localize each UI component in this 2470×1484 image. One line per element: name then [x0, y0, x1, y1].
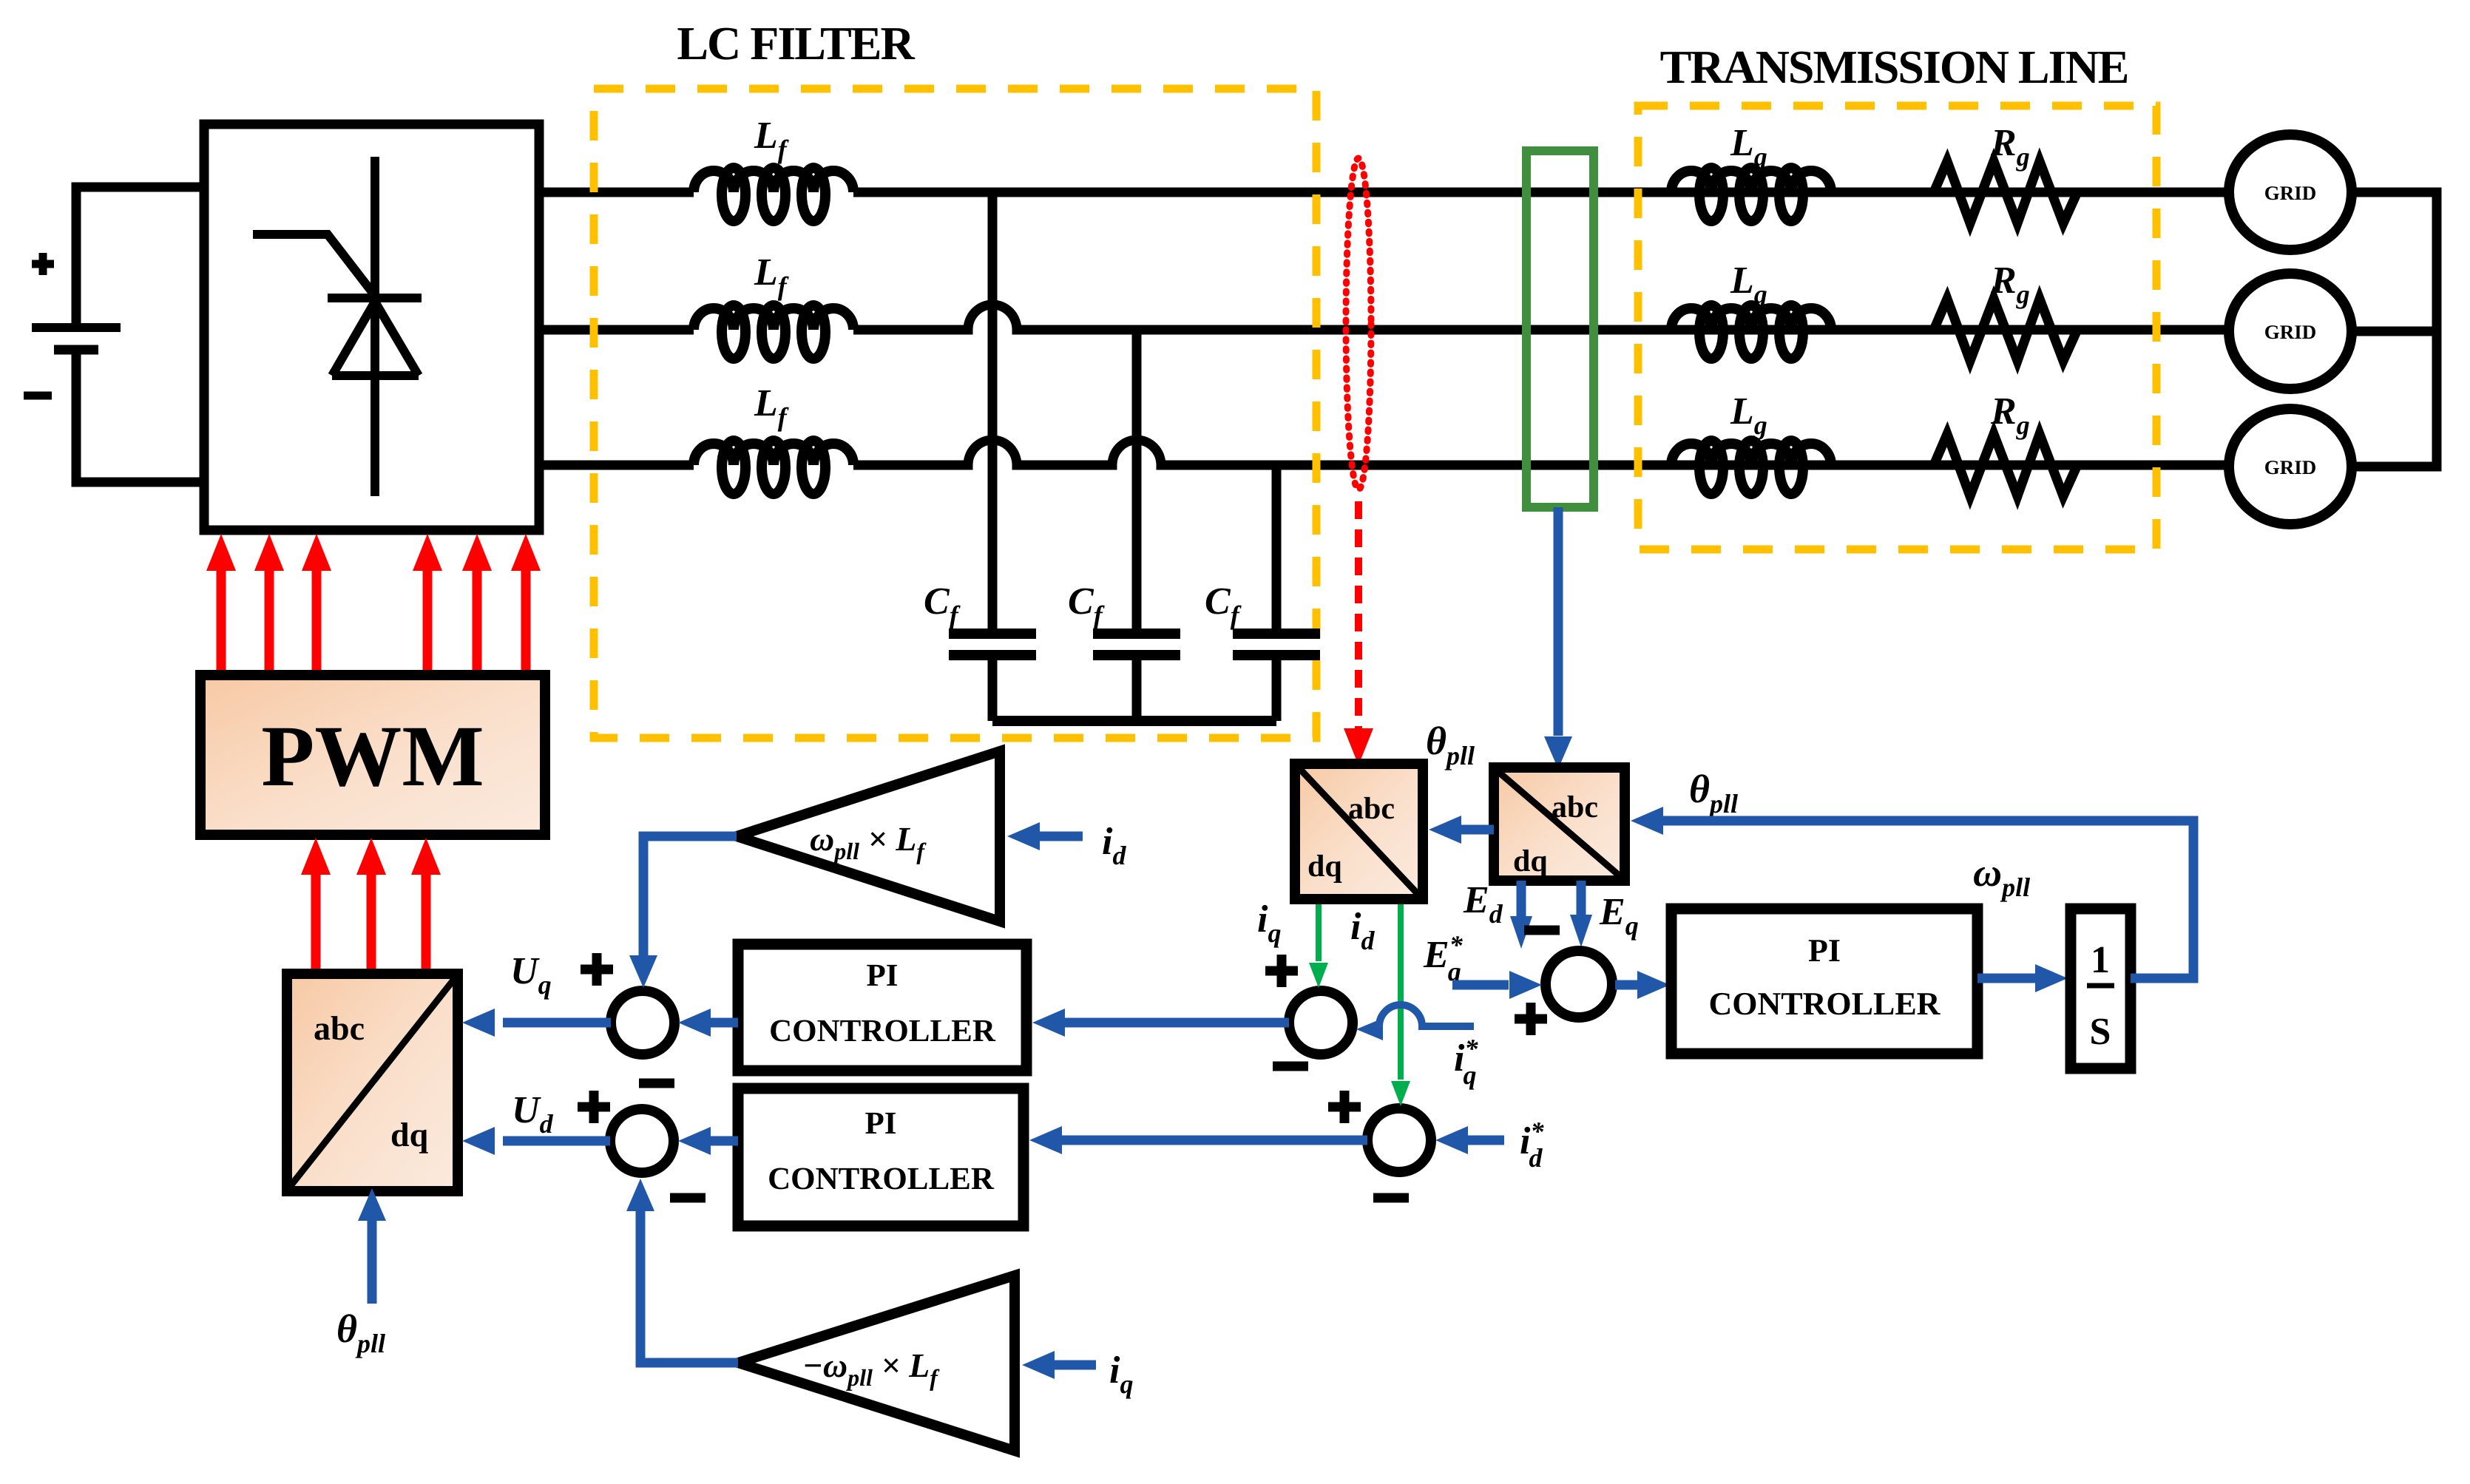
svg-text:GRID: GRID: [2264, 321, 2317, 343]
transmission line dashed boundary box: [1638, 106, 2156, 549]
minus sign iq sum: [1273, 1062, 1308, 1071]
battery V1 short plate: [54, 345, 98, 355]
svg-text:CONTROLLER: CONTROLLER: [769, 1014, 996, 1048]
gain block wpll x Lf: [737, 751, 1000, 921]
svg-text:dq: dq: [390, 1116, 429, 1153]
battery V1 long plate: [32, 323, 121, 332]
voltage measurement dotted ellipse: [1346, 158, 1371, 489]
summing junction iq error: [1289, 991, 1353, 1054]
transform block U2 abc to dq: [1295, 764, 1423, 899]
svg-text:1: 1: [2091, 939, 2110, 981]
PWM block: [200, 675, 545, 835]
capacitor Cf1 lead: [988, 192, 998, 721]
minus sign Ud: [670, 1193, 706, 1203]
wire Eq output to PLL sum: [1577, 881, 1586, 918]
wire gain2 output to Ud sum: [640, 1208, 738, 1363]
capacitor Cf2 plates: [1093, 634, 1180, 655]
svg-text:dq: dq: [1307, 850, 1342, 884]
minus sign PLL sum: [1524, 926, 1560, 935]
svg-text:PI: PI: [865, 1106, 897, 1141]
summing junction id error: [1367, 1108, 1431, 1172]
wire iq measured (green): [1316, 899, 1322, 961]
minus sign id sum: [1373, 1193, 1409, 1203]
wire sensor to abc/dq U3: [1554, 507, 1563, 736]
wire Ud sum to U4: [503, 1136, 610, 1146]
transform block U4 dq to abc: [287, 974, 458, 1191]
svg-text:S: S: [2090, 1011, 2111, 1053]
wire PWM gate signal x=428: [312, 566, 322, 675]
grid source G3: [2229, 409, 2352, 524]
capacitor Cf2 lead: [1132, 330, 1142, 721]
battery V1 negative terminal label: [24, 392, 52, 400]
capacitor Cf3 plates: [1233, 634, 1320, 655]
battery V1 positive terminal label: [32, 253, 54, 275]
wire id measured (green): [1398, 899, 1404, 1080]
wire PI2 output to Ud sum: [710, 1136, 738, 1146]
svg-text:CONTROLLER: CONTROLLER: [1709, 986, 1941, 1022]
PI controller box 1 (q axis): [738, 944, 1026, 1071]
gain block -wpll x Lf: [738, 1275, 1015, 1451]
svg-text:abc: abc: [1552, 790, 1598, 824]
wire PI1 output to Uq sum: [710, 1018, 738, 1028]
svg-text:TRANSMISSION LINE: TRANSMISSION LINE: [1660, 41, 2128, 93]
wire phase B after Lf with hop over Cf1 lead: [853, 305, 2229, 330]
inductor Lg phase A: [1671, 168, 1831, 221]
wire phase C after Lf with hops over Cf1 and Cf2 leads: [853, 440, 2229, 465]
inductor Lg phase C: [1671, 441, 1831, 494]
svg-text:PI: PI: [1808, 932, 1841, 969]
inverter U1 box: [204, 124, 539, 530]
grid source G2: [2229, 274, 2352, 389]
minus sign Uq: [639, 1079, 674, 1088]
wire PLL sum to PI controller: [1615, 980, 1639, 990]
svg-text:CONTROLLER: CONTROLLER: [768, 1162, 995, 1196]
plus sign id sum: [1328, 1091, 1361, 1123]
svg-text:PI: PI: [867, 958, 899, 993]
wire PI PLL to integrator: [1977, 974, 2035, 983]
current sensor green box: [1526, 151, 1594, 507]
inductor Lf phase B: [694, 305, 853, 359]
resistor Rg phase B: [1934, 299, 2077, 361]
wire modulation signal x=427: [311, 870, 321, 974]
wire grid right bus: [2352, 192, 2437, 467]
LC filter dashed boundary box: [594, 89, 1316, 738]
svg-text:abc: abc: [314, 1009, 365, 1047]
wire battery negative to inverter DC-: [76, 350, 204, 482]
inductor Lf phase A: [694, 168, 853, 221]
wire theta_pll into U4: [368, 1220, 377, 1304]
wire iq input to gain2: [1050, 1361, 1096, 1370]
wire phase B line: [539, 325, 694, 335]
capacitor Cf1 plates: [949, 634, 1036, 655]
summing junction Uq: [611, 991, 674, 1054]
dashed red measurement wire to abc/dq: [1355, 501, 1362, 732]
wire theta_pll feedback loop: [1662, 821, 2193, 978]
summing junction Ud: [610, 1109, 674, 1173]
arrowhead sensor wire into abc/dq U3: [1544, 736, 1572, 769]
wire PWM gate signal x=578: [423, 566, 433, 675]
summing junction PLL: [1546, 951, 1612, 1017]
wire phase A after Lf to grid: [853, 188, 2229, 197]
svg-text:dq: dq: [1513, 844, 1548, 878]
plus sign Ud: [578, 1091, 610, 1123]
wire PWM gate signal x=711: [521, 566, 531, 675]
wire phase C line: [539, 461, 694, 470]
wire gain1 output to Uq sum: [643, 836, 737, 958]
svg-text:GRID: GRID: [2264, 456, 2317, 478]
wire PWM gate signal x=645: [473, 566, 482, 675]
wire battery positive to inverter DC+: [76, 187, 204, 328]
arrowhead red measurement into abc/dq U2: [1344, 728, 1373, 765]
wire id* reference: [1461, 1136, 1504, 1145]
svg-text:PWM: PWM: [261, 708, 484, 804]
wire id sum to PI2: [1059, 1136, 1367, 1145]
svg-text:abc: abc: [1348, 792, 1395, 826]
wire U3 to U2: [1461, 825, 1494, 835]
inverter IGBT/diode symbol: [253, 157, 422, 496]
plus sign PLL sum: [1515, 1003, 1547, 1035]
inductor Lf phase C: [694, 441, 853, 494]
svg-text:LC FILTER: LC FILTER: [677, 17, 915, 70]
resistor Rg phase A: [1934, 161, 2077, 223]
wire capacitor common bus: [992, 716, 1276, 726]
integrator block 1/S: [2071, 909, 2131, 1068]
capacitor Cf3 lead: [1272, 465, 1282, 721]
wire Uq sum to U4: [503, 1018, 611, 1028]
wire grid B to bus: [2352, 327, 2437, 336]
svg-text:GRID: GRID: [2264, 182, 2317, 204]
wire Eq* into PLL sum: [1452, 980, 1509, 990]
wire iq* reference with hop over id wire: [1377, 1005, 1474, 1026]
grid source G1: [2229, 135, 2352, 250]
wire iq sum to PI1: [1062, 1018, 1289, 1028]
inductor Lg phase B: [1671, 305, 1831, 359]
PI controller box PLL: [1671, 909, 1977, 1054]
wire id input to gain1: [1035, 832, 1083, 841]
plus sign iq sum: [1265, 955, 1298, 987]
wire modulation signal x=576: [422, 870, 431, 974]
wire PWM gate signal x=299: [217, 566, 226, 675]
transform block U3 abc to dq: [1494, 768, 1625, 881]
plus sign Uq: [581, 953, 613, 986]
PI controller box 2 (d axis): [738, 1088, 1023, 1226]
resistor Rg phase C: [1934, 434, 2077, 496]
wire modulation signal x=502: [367, 870, 376, 974]
wire phase A line: [539, 188, 694, 197]
wire PWM gate signal x=364: [265, 566, 274, 675]
wire Ed output: [1517, 881, 1526, 921]
